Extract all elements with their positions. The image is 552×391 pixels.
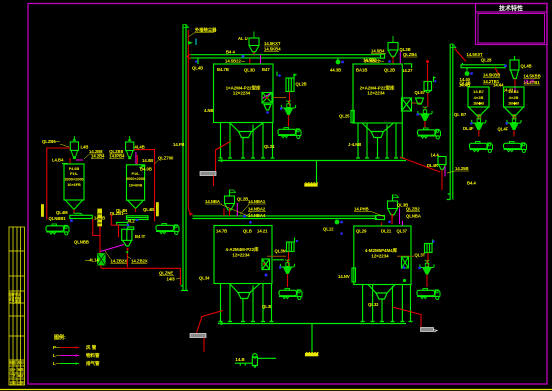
agitator A1 under H1 bbox=[470, 115, 486, 136]
svg-text:14.40: 14.40 bbox=[460, 77, 471, 82]
truck under T4 cluster bbox=[417, 289, 440, 300]
svg-text:14.7B: 14.7B bbox=[216, 229, 227, 234]
agitator A2 under H2 bbox=[505, 115, 521, 136]
right vent pipe bbox=[447, 44, 456, 200]
bucket elevator E1 (yellow) bbox=[93, 209, 102, 254]
svg-text:排气管: 排气管 bbox=[86, 360, 100, 367]
svg-text:QLZ700: QLZ700 bbox=[158, 156, 174, 161]
svg-text:14.2B4: 14.2B4 bbox=[91, 154, 105, 159]
tank T3 discharge cluster bbox=[262, 238, 298, 288]
svg-text:QL12: QL12 bbox=[323, 227, 334, 232]
cyclone C3 bbox=[510, 56, 519, 92]
svg-text:L—: L— bbox=[53, 353, 61, 358]
magenta drop cyclone C2 bbox=[135, 152, 137, 165]
svg-text:制图: 制图 bbox=[10, 360, 16, 365]
tank T1 bbox=[214, 64, 274, 123]
bag filter BF1 bbox=[111, 214, 133, 268]
svg-text:QL32: QL32 bbox=[368, 302, 379, 307]
svg-text:14.5B22—: 14.5B22— bbox=[364, 59, 385, 64]
svg-text:比例: 比例 bbox=[18, 380, 25, 385]
svg-text:QL4M: QL4M bbox=[56, 210, 68, 215]
red loop silo1 bbox=[47, 148, 70, 220]
svg-text:B4.4: B4.4 bbox=[467, 181, 477, 186]
rotary feeder RF1 bbox=[98, 254, 106, 268]
svg-text:L4B: L4B bbox=[81, 145, 89, 150]
svg-text:AL U: AL U bbox=[238, 36, 248, 41]
truck under T1 cluster bbox=[278, 128, 301, 139]
svg-text:QLNBB1: QLNBB1 bbox=[49, 216, 67, 221]
pneumatic pipe P1 (top) bbox=[187, 54, 385, 59]
red drop cyclone C2 to silo S2 bbox=[136, 155, 138, 165]
tank T3 hopper bottom and legs bbox=[219, 284, 274, 322]
svg-text:4×2B: 4×2B bbox=[474, 95, 484, 100]
svg-text:QL3D: QL3D bbox=[244, 68, 255, 73]
valve under SC3 bbox=[460, 68, 474, 86]
svg-text:14.ZB2X: 14.ZB2X bbox=[111, 259, 128, 264]
svg-text:14.0B: 14.0B bbox=[142, 158, 153, 163]
valve circle on P2 bbox=[323, 220, 343, 235]
feeder hopper F2 (tank2) bbox=[363, 36, 418, 64]
labels 14.ZB2 with leaders bbox=[105, 251, 148, 264]
silo S1 bbox=[62, 160, 84, 213]
svg-text:B4 4: B4 4 bbox=[226, 50, 236, 55]
svg-text:DL21: DL21 bbox=[381, 229, 392, 234]
svg-text:QL3T: QL3T bbox=[415, 253, 426, 258]
svg-text:风 管: 风 管 bbox=[86, 344, 97, 351]
svg-text:QL24: QL24 bbox=[264, 144, 275, 149]
svg-text:14.5KXT: 14.5KXT bbox=[264, 41, 281, 46]
svg-text:14/8: 14/8 bbox=[167, 277, 176, 282]
svg-text:QL28: QL28 bbox=[481, 58, 492, 63]
svg-text:4.NB: 4.NB bbox=[204, 108, 214, 113]
feeder hopper F3 (tank3) bbox=[205, 190, 266, 224]
pipe bottom elbow bbox=[181, 285, 184, 287]
svg-text:技术特性: 技术特性 bbox=[499, 5, 523, 13]
svg-text:日期: 日期 bbox=[10, 380, 17, 385]
svg-text:10×6FB: 10×6FB bbox=[67, 183, 81, 187]
bucket elevator BE2 red drop bbox=[427, 93, 429, 107]
tank T2 hopper bottom and legs bbox=[348, 123, 404, 158]
svg-text:QL37: QL37 bbox=[397, 229, 408, 234]
svg-text:4×2B: 4×2B bbox=[509, 95, 519, 100]
cyclone C2 bbox=[126, 136, 134, 159]
label QLZB6 with leader bbox=[42, 139, 69, 147]
svg-text:审定: 审定 bbox=[18, 373, 25, 378]
svg-text:QLZB6—: QLZB6— bbox=[42, 139, 61, 144]
svg-text:14.21: 14.21 bbox=[257, 229, 268, 234]
svg-text:14.PHB: 14.PHB bbox=[354, 207, 369, 212]
svg-text:QLB: QLB bbox=[243, 229, 252, 234]
red fill line to truck T4 bbox=[393, 307, 422, 327]
hopper tank H2 bbox=[504, 87, 525, 118]
main vertical vent pipe bbox=[181, 25, 189, 291]
svg-text:14.5B22—: 14.5B22— bbox=[225, 59, 246, 64]
svg-text:14.NV: 14.NV bbox=[338, 274, 350, 279]
svg-text:12×2234: 12×2234 bbox=[232, 253, 250, 258]
truck under T2 cluster bbox=[418, 128, 441, 139]
valve V1 on P1 bbox=[192, 58, 203, 70]
svg-text:12×2234: 12×2234 bbox=[371, 254, 389, 259]
svg-text:P—: P— bbox=[53, 345, 61, 350]
top vent drop to ground bbox=[304, 161, 318, 187]
bottom vent drop to ground bbox=[305, 324, 319, 357]
svg-text:QL2B: QL2B bbox=[296, 82, 307, 87]
red collection header left bbox=[101, 268, 180, 285]
rotary inlet H2 bbox=[513, 115, 516, 119]
tank T1 hopper bottom and legs bbox=[219, 123, 275, 159]
standpipe QL25 bbox=[339, 111, 354, 123]
svg-text:QL34: QL34 bbox=[199, 276, 210, 281]
svg-text:B47: B47 bbox=[262, 67, 270, 72]
truck TR1 bbox=[470, 142, 493, 153]
svg-text:44.3B: 44.3B bbox=[330, 68, 341, 73]
bottom yellow frame line bbox=[0, 389, 552, 391]
svg-text:12×2234: 12×2234 bbox=[233, 91, 251, 96]
svg-text:QL29: QL29 bbox=[356, 229, 367, 234]
svg-text:QLZB4: QLZB4 bbox=[403, 52, 417, 57]
svg-text:QL2B: QL2B bbox=[237, 197, 248, 202]
tank T2 bbox=[353, 59, 402, 124]
svg-text:4L2: 4L2 bbox=[128, 218, 136, 223]
svg-text:DL4R: DL4R bbox=[427, 163, 438, 168]
svg-text:QLNBB: QLNBB bbox=[74, 240, 89, 245]
svg-text:14.27: 14.27 bbox=[402, 68, 413, 73]
legend bbox=[53, 334, 100, 367]
svg-text:P4.6B: P4.6B bbox=[69, 167, 80, 171]
truck TL2 bbox=[156, 224, 179, 235]
red loop silo2 bbox=[134, 150, 155, 222]
truck under T3 cluster bbox=[279, 289, 302, 300]
tank T4 discharge cluster bbox=[397, 240, 435, 288]
svg-text:14.5K0T: 14.5K0T bbox=[467, 52, 484, 57]
tank T4 bbox=[338, 226, 411, 285]
svg-text:14.NBA: 14.NBA bbox=[205, 199, 220, 204]
label 14.5B22 under P1 bbox=[225, 59, 246, 64]
label 14/8 bbox=[167, 277, 181, 282]
svg-text:14.5KB4: 14.5KB4 bbox=[264, 47, 281, 52]
svg-text:QLZNE: QLZNE bbox=[159, 271, 173, 276]
screw conveyor SC2 bbox=[127, 216, 149, 224]
tank T1 discharge cluster bbox=[262, 72, 307, 127]
blue inline valve on P1 bbox=[242, 55, 245, 58]
bottom collection line bbox=[218, 322, 406, 325]
svg-text:BA1B: BA1B bbox=[356, 68, 367, 73]
red line T2 legs to cyclone C5 bbox=[400, 157, 440, 172]
label QLZNE bbox=[159, 271, 174, 276]
svg-text:14.5KBB: 14.5KBB bbox=[483, 73, 500, 78]
svg-text:14.ZB2X: 14.ZB2X bbox=[131, 259, 148, 264]
svg-text:校对: 校对 bbox=[18, 360, 25, 365]
label vent pipe bbox=[188, 27, 217, 38]
svg-text:2000×2000: 2000×2000 bbox=[126, 177, 145, 181]
svg-text:QL4B: QL4B bbox=[143, 207, 154, 212]
top collection line bbox=[218, 159, 406, 162]
grey unloader G1 bbox=[200, 108, 231, 186]
tank T3 bbox=[214, 226, 272, 284]
cyclone C1 bbox=[70, 136, 78, 159]
svg-text:14.5B4: 14.5B4 bbox=[371, 49, 385, 54]
svg-text:14.NBA4: 14.NBA4 bbox=[248, 213, 266, 218]
svg-text:QL87: QL87 bbox=[415, 90, 426, 95]
svg-text:QLZB2: QLZB2 bbox=[406, 207, 420, 212]
red feed riser bbox=[188, 30, 193, 216]
svg-text:DL4F: DL4F bbox=[463, 126, 474, 131]
svg-text:QL3I: QL3I bbox=[262, 304, 271, 309]
grey unloader G2 bbox=[190, 311, 223, 353]
svg-text:QL2B: QL2B bbox=[384, 68, 395, 73]
grey unloader G3 bbox=[421, 328, 438, 333]
svg-text:L4.B4: L4.B4 bbox=[52, 158, 64, 163]
svg-text:1B◆B: 1B◆B bbox=[473, 101, 484, 106]
labels 14.5KBB / 14.2TB1 right bbox=[524, 74, 541, 86]
svg-text:14.4: 14.4 bbox=[431, 153, 440, 158]
magenta pointer to BF1 funnel bbox=[101, 245, 125, 252]
svg-text:12×2234: 12×2234 bbox=[367, 91, 385, 96]
screw feeder SC3 bbox=[461, 58, 507, 68]
svg-text:B4.7B: B4.7B bbox=[217, 67, 229, 72]
rotary inlet H1 bbox=[478, 115, 481, 119]
svg-text:B4 IT: B4 IT bbox=[135, 234, 146, 239]
svg-text:1B◆B: 1B◆B bbox=[508, 101, 519, 106]
svg-text:14.NBA2: 14.NBA2 bbox=[248, 207, 266, 212]
svg-text:4L4B: 4L4B bbox=[135, 145, 145, 150]
label 14.25B bbox=[447, 166, 469, 173]
svg-text:14JPB4: 14JPB4 bbox=[109, 154, 125, 159]
svg-text:QL4B: QL4B bbox=[192, 66, 203, 71]
svg-text:审核: 审核 bbox=[18, 367, 25, 372]
svg-text:QL3N: QL3N bbox=[275, 249, 286, 254]
svg-text:14.B7: 14.B7 bbox=[473, 89, 484, 94]
cyclone C5 bbox=[438, 157, 446, 191]
svg-text:QL4F: QL4F bbox=[498, 127, 509, 132]
svg-text:P16-: P16- bbox=[70, 172, 79, 176]
svg-text:14.B: 14.B bbox=[235, 357, 244, 362]
svg-text:QL4B: QL4B bbox=[521, 64, 532, 69]
svg-text:工艺审查: 工艺审查 bbox=[9, 299, 23, 304]
feeder hopper F1 (tank1) bbox=[238, 32, 281, 65]
svg-text:14.4B: 14.4B bbox=[459, 82, 470, 87]
pneumatic pipe P2 (bottom) bbox=[193, 216, 385, 220]
screw conveyor SC1 bbox=[70, 213, 93, 222]
svg-text:14.25B: 14.25B bbox=[455, 166, 469, 171]
svg-text:B4.0B: B4.0B bbox=[140, 167, 152, 172]
svg-text:14.B1: 14.B1 bbox=[508, 89, 519, 94]
svg-text:10×6FB: 10×6FB bbox=[129, 184, 143, 188]
svg-text:14.FB: 14.FB bbox=[173, 142, 184, 147]
valve circle on P1 right bbox=[330, 58, 344, 73]
svg-text:QL25: QL25 bbox=[339, 114, 350, 119]
svg-text:14.NBA1: 14.NBA1 bbox=[248, 199, 266, 204]
svg-text:—4L14: —4L14 bbox=[85, 258, 99, 263]
yellow riser tag right bbox=[156, 203, 158, 217]
svg-text:L—: L— bbox=[53, 361, 61, 366]
riser valve bbox=[188, 39, 196, 46]
labels 14.2B8 / 14.2B4 bbox=[84, 149, 105, 159]
red drop cyclone C1 to silo S1 bbox=[69, 158, 71, 164]
tank T4 hopper bottom and legs bbox=[361, 285, 413, 322]
labels above hoppers bbox=[459, 77, 535, 93]
left title-block table bbox=[9, 227, 25, 385]
svg-text:QL25: QL25 bbox=[524, 79, 535, 84]
svg-text:J-4.NB: J-4.NB bbox=[348, 142, 361, 147]
feeder hopper F4 (tank4) bbox=[354, 195, 421, 227]
svg-text:工艺: 工艺 bbox=[10, 373, 17, 378]
svg-text:QLZB1—: QLZB1— bbox=[110, 211, 129, 216]
title box top-right bbox=[476, 4, 548, 45]
svg-text:物料管: 物料管 bbox=[86, 352, 100, 359]
svg-text:QLNBA: QLNBA bbox=[406, 214, 421, 219]
truck TL1 bbox=[46, 224, 69, 235]
truck TR2 bbox=[504, 142, 527, 153]
labels 14.5KBB / 14.2TB1 bbox=[483, 68, 500, 84]
svg-text:QL B7: QL B7 bbox=[454, 112, 467, 117]
hopper tank H1 bbox=[468, 87, 489, 118]
svg-text:2000×2000: 2000×2000 bbox=[64, 178, 83, 182]
label 14.5K0T with red leader bbox=[455, 49, 484, 62]
svg-text:设计: 设计 bbox=[10, 367, 17, 372]
pump unit bottom center bbox=[235, 354, 276, 368]
tank T2 discharge cluster bbox=[402, 60, 437, 128]
svg-text:图例:: 图例: bbox=[54, 334, 66, 341]
svg-text:P16-: P16- bbox=[131, 172, 140, 176]
labels QLZB8 / 14JPB4 bbox=[109, 149, 125, 159]
silo S2 bbox=[126, 165, 145, 213]
yellow riser tag bbox=[41, 205, 43, 217]
vent elbow right of F2 bbox=[402, 64, 413, 73]
